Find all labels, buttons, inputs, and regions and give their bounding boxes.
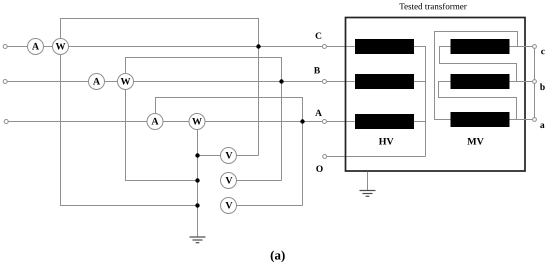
label a [540,124,544,129]
wire O neutral from transformer [327,156,426,158]
voltmeter V1 [221,148,237,164]
terminal A [322,120,326,124]
junction row C / W1 loop [256,44,260,48]
label c [541,50,545,55]
ammeter A1 [28,39,44,55]
wire W2 bottom to neutral bus [126,90,198,181]
wire A3 voltage loop [156,98,303,206]
wire HV star bus [414,47,426,157]
terminal input C [3,45,7,49]
wire MV w2-left zigzag to a junction [439,82,517,120]
wire W1 bottom to neutral bus [61,55,198,206]
label b [540,83,545,90]
label HV [379,138,394,145]
wire V1 left stub [198,155,221,157]
wire MV w1 right stub to terminal c [510,46,533,48]
terminal c [533,45,537,49]
wire MV w1-left zigzag to b junction [440,47,517,82]
terminal input B [3,80,7,84]
terminal C [322,45,326,49]
wire MV shorting bar [534,47,536,120]
wire MV w3-left to top to c junction [435,32,518,120]
terminal b [533,80,537,84]
transformer box [346,18,526,172]
ground transformer tank [360,172,376,197]
wattmeter W1 [53,39,69,55]
wattmeter W2 [118,74,134,90]
wire MV w3 right stub to terminal a [510,119,533,121]
junction bus V1 [195,153,199,157]
ground left circuit [190,237,206,243]
label B [314,67,320,73]
junction bus V2 [195,178,199,182]
terminal input A [4,120,8,124]
MV winding 3 [451,112,510,127]
label (a) caption [271,250,285,262]
wattmeter W3 [189,114,205,130]
wire MV w2 right stub to terminal b [510,81,533,83]
label A [315,110,322,116]
HV winding 2 [355,74,414,89]
wire phase A horizontal [8,121,355,123]
ammeter A2 [89,74,105,90]
label Tested transformer [399,3,466,9]
wire W3 bottom neutral bus vertical [197,130,199,237]
terminal a [533,118,537,122]
MV winding 2 [451,74,510,89]
label C [316,33,322,39]
label O [316,166,322,172]
voltmeter V3 [221,198,237,214]
wire W1 voltage loop [61,19,259,156]
wire HV w2 stub [414,81,426,83]
voltmeter V2 [221,173,237,189]
junction row B / W2 loop [279,79,283,83]
ammeter A3 [147,114,163,130]
terminal O [323,155,327,159]
wire V3 right stub [237,205,303,207]
wire V2 right stub [237,180,282,182]
HV winding 3 [355,114,414,129]
wire W2 voltage loop [126,58,282,181]
terminal B [322,80,326,84]
MV winding 1 [451,39,510,54]
wire phase B horizontal [7,81,355,83]
junction bus V3 [195,203,199,207]
label MV [467,138,483,145]
HV winding 1 [355,39,414,54]
wire V1 right stub [237,155,259,157]
junction row A / A3 loop [300,119,304,123]
wire phase C horizontal [7,46,355,48]
wire HV w3 stub [414,121,426,123]
